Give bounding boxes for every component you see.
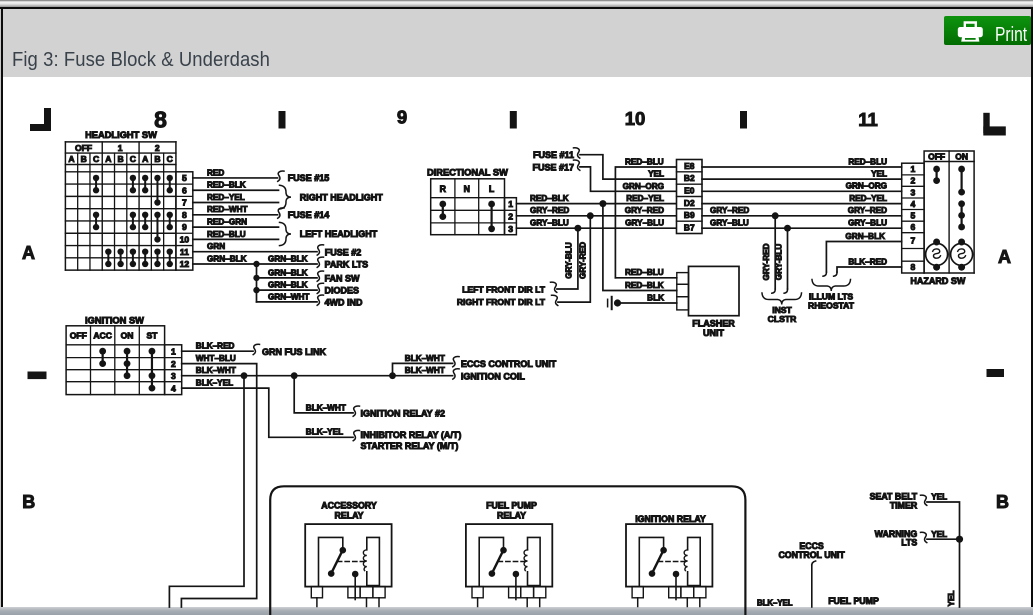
svg-text:STARTER RELAY (M/T): STARTER RELAY (M/T) [361, 441, 459, 451]
page title [12, 48, 552, 74]
svg-text:8: 8 [154, 106, 167, 132]
svg-text:GRY-RED: GRY-RED [762, 243, 771, 280]
svg-text:B: B [22, 492, 35, 512]
svg-text:A: A [22, 243, 35, 263]
headlight switch pin number column [176, 172, 193, 270]
fuse #2 tap [317, 245, 361, 257]
svg-text:2: 2 [171, 359, 176, 369]
label FUEL PUMP [828, 596, 879, 606]
svg-text:GRY-BLU: GRY-BLU [565, 242, 574, 279]
svg-text:GRY-RED: GRY-RED [578, 242, 587, 279]
svg-text:YEL: YEL [871, 170, 887, 179]
svg-text:RED–BLU: RED–BLU [625, 268, 664, 277]
fuel pump relay [466, 500, 552, 606]
svg-text:GRY–RED: GRY–RED [710, 206, 749, 215]
svg-text:BLK: BLK [647, 293, 664, 302]
svg-text:8: 8 [182, 210, 187, 220]
grid label 10 [625, 108, 646, 129]
svg-text:LEFT FRONT DIR LT: LEFT FRONT DIR LT [462, 285, 546, 295]
wire YEL connector to hazard [702, 170, 902, 180]
svg-text:D2: D2 [684, 198, 695, 208]
wire WHT-BLU ignition pin 2 [181, 354, 256, 607]
wire RED-YEL headlight pin 7 [193, 193, 279, 203]
svg-text:B7: B7 [684, 222, 695, 232]
svg-text:3: 3 [911, 187, 916, 197]
grid tick 9/10 [510, 111, 517, 129]
svg-text:A: A [105, 154, 111, 164]
svg-text:GRN–WHT: GRN–WHT [268, 292, 309, 301]
svg-text:R: R [440, 184, 447, 194]
svg-text:RELAY: RELAY [497, 510, 526, 520]
ignition switch contact dots [99, 348, 155, 392]
svg-text:FUSE #15: FUSE #15 [288, 173, 330, 183]
svg-text:RELAY: RELAY [334, 510, 363, 520]
svg-text:9: 9 [182, 222, 187, 232]
grid tick A/B left [28, 372, 47, 380]
left headlight brace [280, 222, 378, 245]
wire BLK-RED to grn fus link [182, 342, 327, 357]
directional switch DIRECTIONAL SW [427, 167, 508, 234]
svg-text:1: 1 [118, 143, 123, 153]
node GRY-RED to inst clstr [772, 212, 779, 293]
label BLK-YEL partial [757, 599, 793, 608]
node GRY-BLU to left front dir lt [557, 225, 581, 289]
svg-text:HEADLIGHT SW: HEADLIGHT SW [85, 130, 157, 140]
svg-text:E0: E0 [684, 185, 695, 195]
svg-text:HAZARD SW: HAZARD SW [910, 276, 965, 286]
wire RED-BLU to flasher [615, 268, 676, 278]
label RED-BLK flasher [625, 281, 664, 290]
svg-text:3: 3 [508, 224, 513, 234]
ignition switch pin number column [165, 345, 182, 395]
svg-text:YEL: YEL [931, 530, 947, 539]
node YEL junction [956, 536, 963, 607]
print button label [995, 24, 1027, 47]
label GRY-RED vertical [578, 242, 587, 279]
wire RED headlight pin 5 [193, 168, 278, 178]
svg-text:PARK LTS: PARK LTS [325, 260, 369, 270]
svg-text:C: C [93, 154, 99, 164]
wire GRN headlight pin 11 [193, 242, 317, 252]
label YEL vertical [947, 591, 956, 607]
svg-text:A: A [68, 154, 74, 164]
wire BLK-WHT to ignition relay #2 [306, 403, 445, 418]
svg-text:INHIBITOR RELAY (A/T): INHIBITOR RELAY (A/T) [361, 430, 462, 440]
svg-text:IGNITION RELAY: IGNITION RELAY [635, 514, 706, 524]
svg-text:A: A [142, 154, 148, 164]
wire GRN-BLK headlight pin 12 [193, 254, 317, 264]
wire GRN-BLK to park lts [268, 254, 368, 269]
svg-text:BLK–WHT: BLK–WHT [306, 403, 346, 412]
right border line [1031, 9, 1033, 607]
svg-text:GRY–BLU: GRY–BLU [625, 219, 664, 228]
svg-text:2: 2 [911, 176, 916, 186]
svg-text:11: 11 [858, 109, 878, 130]
hazard switch contact dots [933, 166, 965, 231]
svg-text:7: 7 [182, 198, 187, 208]
directional switch contact dots [439, 201, 495, 233]
wire GRN-BLK to diodes [257, 281, 360, 296]
svg-text:RIGHT FRONT DIR LT: RIGHT FRONT DIR LT [457, 297, 546, 307]
svg-text:GRY–RED: GRY–RED [530, 206, 569, 215]
right headlight brace [280, 185, 384, 209]
wire BLK-YEL to inhibitor/starter relay [182, 379, 462, 452]
illum lts rheostat brace [808, 280, 855, 311]
window top border line [0, 7, 1033, 9]
svg-text:GRY–RED: GRY–RED [625, 206, 664, 215]
svg-text:2: 2 [155, 143, 160, 153]
grid tick 8/9 [279, 111, 286, 129]
hazard switch HAZARD SW [902, 151, 974, 286]
wire BLK-WHT ignition pin 3 [182, 366, 393, 376]
svg-text:C: C [130, 154, 136, 164]
grid row letter A left [22, 243, 35, 263]
svg-text:RED: RED [207, 168, 224, 177]
svg-text:CONTROL UNIT: CONTROL UNIT [778, 550, 845, 560]
svg-text:GRY–BLU: GRY–BLU [530, 219, 569, 228]
grid row letter A right [998, 247, 1011, 267]
svg-text:10: 10 [625, 108, 646, 129]
svg-text:IGNITION RELAY #2: IGNITION RELAY #2 [361, 408, 446, 418]
svg-text:YEL: YEL [931, 493, 947, 502]
svg-text:1: 1 [911, 164, 916, 174]
svg-text:FUSE #2: FUSE #2 [325, 247, 362, 257]
headlight switch contact dots [93, 175, 173, 267]
wire GRN-WHT to 4wd ind [257, 292, 364, 307]
svg-text:B: B [118, 154, 124, 164]
label GRY-RED vertical inst [762, 243, 771, 280]
svg-text:LEFT HEADLIGHT: LEFT HEADLIGHT [300, 229, 378, 239]
wire BLK-WHT to ignition coil [393, 366, 526, 382]
grid row letter B left [22, 492, 35, 512]
svg-text:6: 6 [911, 222, 916, 232]
svg-text:TIMER: TIMER [890, 500, 918, 510]
svg-text:DIRECTIONAL SW: DIRECTIONAL SW [427, 167, 508, 177]
svg-text:9: 9 [397, 106, 407, 127]
wire GRY-RED directional pin 2 [516, 206, 676, 216]
fuse #15 tap [278, 171, 330, 183]
wire GRY-BLU directional pin 3 [516, 219, 676, 229]
svg-text:RED–BLU: RED–BLU [625, 157, 664, 166]
grid tick 10/11 [740, 111, 747, 129]
node GRN-BLK branch bus [253, 261, 259, 302]
svg-text:N: N [464, 184, 470, 194]
svg-text:YEL: YEL [947, 591, 956, 607]
wire GRN-ORG connector to hazard [702, 182, 902, 192]
svg-text:DIODES: DIODES [325, 286, 360, 296]
wire RED-BLU connector to hazard [702, 157, 902, 167]
svg-text:1: 1 [508, 199, 513, 209]
svg-text:FUEL PUMP: FUEL PUMP [828, 596, 879, 606]
accessory relay [305, 500, 391, 606]
svg-text:IGNITION COIL: IGNITION COIL [461, 372, 526, 382]
svg-text:4: 4 [911, 199, 916, 209]
left front dir lt tap [462, 282, 557, 294]
svg-text:BLK–WHT: BLK–WHT [405, 354, 445, 363]
svg-text:2: 2 [508, 212, 513, 222]
svg-text:GRY–BLU: GRY–BLU [710, 219, 749, 228]
svg-text:OFF: OFF [75, 143, 92, 153]
svg-text:GRY–RED: GRY–RED [848, 206, 887, 215]
svg-text:YEL: YEL [648, 170, 664, 179]
headlight switch HEADLIGHT SW [65, 130, 176, 270]
svg-text:5: 5 [911, 210, 916, 220]
window top bevel strip [0, 0, 1033, 7]
eccs control unit lead [778, 541, 845, 607]
svg-text:C: C [167, 154, 173, 164]
grid label 8 [154, 106, 167, 132]
svg-text:7: 7 [911, 236, 916, 246]
node BLK-WHT junction to eccs [389, 363, 453, 379]
wire RED-BLU headlight pin 10 [193, 230, 279, 240]
svg-text:BLK–RED: BLK–RED [196, 342, 235, 351]
ground BLK to flasher [608, 293, 677, 309]
svg-text:ACC: ACC [93, 330, 112, 340]
svg-text:RED–BLU: RED–BLU [207, 230, 246, 239]
svg-text:FUEL PUMP: FUEL PUMP [486, 500, 537, 510]
wire GRN-BLK to fan sw [257, 268, 361, 283]
svg-text:10: 10 [180, 234, 190, 244]
fuse #11 tap [533, 148, 677, 179]
svg-text:4WD IND: 4WD IND [325, 297, 364, 307]
svg-text:GRN–ORG: GRN–ORG [623, 182, 664, 191]
print button [944, 16, 1031, 46]
svg-text:ECCS CONTROL UNIT: ECCS CONTROL UNIT [461, 359, 557, 369]
svg-text:RED–BLK: RED–BLK [625, 281, 664, 290]
svg-text:3: 3 [171, 371, 176, 381]
grid corner mark top-right [983, 113, 1006, 136]
svg-text:RED–YEL: RED–YEL [207, 193, 245, 202]
svg-text:RED–GRN: RED–GRN [207, 218, 247, 227]
svg-text:GRN FUS LINK: GRN FUS LINK [262, 347, 326, 357]
svg-text:WHT–BLU: WHT–BLU [196, 354, 236, 363]
grid row letter B right [996, 492, 1009, 512]
svg-text:GRY–BLU: GRY–BLU [848, 219, 887, 228]
svg-text:ON: ON [955, 152, 968, 162]
svg-text:5: 5 [182, 173, 187, 183]
svg-text:ACCESSORY: ACCESSORY [321, 500, 377, 510]
svg-text:B: B [81, 154, 87, 164]
svg-text:CLSTR: CLSTR [768, 314, 797, 324]
connector block E8/B2/E0/D2/B9/B7 [677, 160, 703, 234]
svg-text:FUSE #17: FUSE #17 [532, 163, 574, 173]
svg-text:RED–YEL: RED–YEL [626, 194, 664, 203]
label GRY-BLU vertical [565, 242, 574, 279]
svg-text:FAN SW: FAN SW [325, 273, 361, 283]
svg-text:UNIT: UNIT [703, 328, 724, 338]
grid corner mark top-left [30, 108, 51, 131]
wire RED-BLK headlight pin 6 [193, 181, 279, 191]
ignition relay [626, 514, 712, 607]
svg-text:11: 11 [180, 247, 189, 257]
print button printer icon [957, 21, 984, 43]
wire RED-BLK / RED-YEL directional pin 1 [516, 194, 676, 204]
svg-text:BLK–YEL: BLK–YEL [196, 379, 233, 388]
label GRY-BLU vertical inst [774, 244, 783, 281]
svg-text:BLK–WHT: BLK–WHT [196, 366, 236, 375]
svg-text:B9: B9 [684, 210, 695, 220]
svg-text:E8: E8 [684, 161, 695, 171]
svg-text:B: B [154, 154, 160, 164]
svg-text:12: 12 [180, 259, 190, 269]
svg-text:GRN–BLK: GRN–BLK [268, 281, 308, 290]
left border line [0, 9, 1, 607]
svg-text:RED–YEL: RED–YEL [849, 194, 887, 203]
svg-text:LTS: LTS [901, 538, 917, 548]
wire GRN-BLK hazard pin 7 [823, 232, 902, 276]
seat belt timer tap [870, 492, 960, 540]
grid tick A/B right [987, 369, 1005, 377]
svg-text:GRN–BLK: GRN–BLK [845, 232, 885, 241]
svg-text:GRN–ORG: GRN–ORG [846, 182, 887, 191]
hazard lamp ON [951, 239, 973, 271]
svg-text:RED–WHT: RED–WHT [207, 205, 247, 214]
svg-text:RHEOSTAT: RHEOSTAT [808, 301, 855, 311]
hazard lamp OFF [926, 239, 948, 271]
svg-text:BLK–WHT: BLK–WHT [405, 366, 445, 375]
svg-text:1: 1 [171, 346, 176, 356]
svg-text:8: 8 [911, 262, 916, 272]
svg-text:RED–BLK: RED–BLK [207, 181, 246, 190]
ignition switch IGNITION SW [66, 315, 165, 394]
svg-text:FUSE #14: FUSE #14 [288, 210, 330, 220]
svg-text:GRN–BLK: GRN–BLK [268, 254, 308, 263]
svg-text:B: B [996, 492, 1009, 512]
flasher unit [677, 266, 739, 338]
directional switch pin number column [505, 198, 517, 235]
svg-text:ON: ON [121, 330, 134, 340]
svg-text:A: A [998, 247, 1011, 267]
svg-text:6: 6 [182, 185, 187, 195]
wire GRY-RED connector to hazard [702, 206, 902, 216]
bottom scrollbar strip [0, 607, 1033, 615]
node GRY-RED to right front dir lt [558, 212, 594, 302]
svg-text:OFF: OFF [70, 330, 87, 340]
svg-text:RIGHT HEADLIGHT: RIGHT HEADLIGHT [300, 192, 383, 202]
svg-text:BLK–YEL: BLK–YEL [306, 428, 343, 437]
grid label 11 [858, 109, 878, 130]
svg-text:BLK–YEL: BLK–YEL [757, 599, 793, 608]
svg-text:4: 4 [171, 383, 176, 393]
node GRY-BLU to inst clstr [784, 225, 791, 294]
wire RED-GRN headlight pin 9 [193, 218, 279, 228]
svg-text:ST: ST [146, 330, 158, 340]
fuse #14 tap [278, 208, 330, 220]
svg-text:RED–BLU: RED–BLU [848, 157, 887, 166]
svg-text:IGNITION SW: IGNITION SW [85, 315, 144, 325]
svg-text:B2: B2 [684, 173, 695, 183]
node RED-YEL to flasher RED-BLK [599, 200, 676, 290]
svg-text:OFF: OFF [928, 152, 945, 162]
wire RED-WHT headlight pin 8 [193, 205, 278, 215]
grid label 9 [397, 106, 407, 127]
fuse #17 tap [532, 160, 676, 191]
svg-text:GRN–BLK: GRN–BLK [207, 254, 247, 263]
svg-text:GRY-BLU: GRY-BLU [774, 244, 783, 281]
svg-text:GRN–BLK: GRN–BLK [268, 268, 308, 277]
svg-text:RED–BLK: RED–BLK [530, 194, 569, 203]
wire GRY-BLU connector to hazard [702, 219, 902, 229]
svg-text:FUSE #11: FUSE #11 [533, 150, 574, 160]
wire RED-YEL connector to hazard [702, 194, 902, 204]
node BLK-WHT junction to ignition relay 2 [291, 372, 353, 413]
warning lts tap [875, 529, 960, 547]
header gray bar [3, 9, 1031, 77]
svg-text:GRN: GRN [207, 242, 225, 251]
underdash relay box outline [270, 486, 745, 615]
wire BLK-RED hazard pin 8 [834, 257, 902, 276]
right front dir lt tap [457, 295, 558, 307]
svg-text:L: L [489, 184, 495, 194]
inst clstr brace [762, 293, 802, 324]
svg-text:BLK–RED: BLK–RED [848, 257, 887, 266]
wire BLK-WHT to eccs control unit [405, 354, 557, 369]
node BLK-WHT junction to underdash [169, 372, 247, 607]
wire RED-BLU feed [615, 157, 676, 277]
